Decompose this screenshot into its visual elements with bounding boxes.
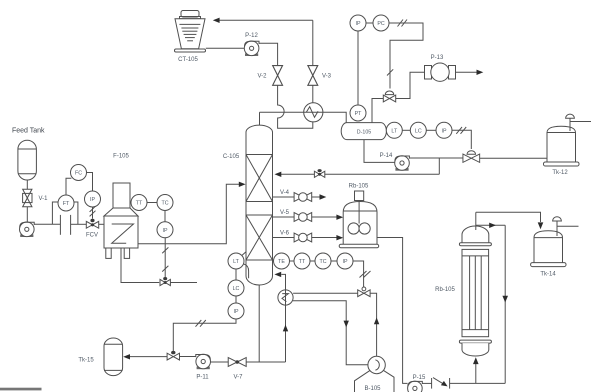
svg-text:IP: IP (90, 197, 95, 203)
svg-text:FT: FT (63, 201, 70, 207)
reflux branch down (438, 158, 440, 174)
svg-text:IP: IP (342, 259, 347, 265)
pump P-11 (196, 354, 211, 380)
signal PT to IP (357, 31, 359, 105)
signal LT to LC (235, 269, 237, 280)
pump P-14 (380, 153, 410, 170)
Tk-12 vent (566, 114, 591, 131)
svg-text:TT: TT (136, 201, 143, 207)
svg-text:Feed Tank: Feed Tank (12, 128, 45, 135)
wire P-14 to level valve (409, 157, 463, 159)
svg-text:V-5: V-5 (280, 210, 290, 216)
column C-105 shell (246, 112, 273, 285)
arrow feed into column (239, 182, 246, 187)
svg-text:P-13: P-13 (431, 55, 444, 61)
svg-text:LC: LC (415, 128, 422, 134)
pump P-15 (408, 375, 426, 392)
instrument LC (drum level) (410, 122, 426, 138)
tank Tk-14 (531, 231, 566, 278)
reboiler exchanger (278, 290, 293, 305)
svg-text:FCV: FCV (86, 233, 98, 239)
wire V-7 to P-11 (211, 361, 229, 363)
svg-text:CT-105: CT-105 (178, 57, 198, 63)
overhead line column to drum (260, 112, 347, 122)
column packing section 2 (246, 215, 273, 260)
signal FC to IP (87, 173, 93, 192)
svg-text:LT: LT (391, 128, 398, 134)
wire V-3 to condenser top (312, 85, 314, 103)
instrument TC (column bottom) (315, 253, 331, 269)
svg-text:Tk-15: Tk-15 (78, 358, 94, 364)
wire V-6 to reactor (312, 235, 344, 240)
instrument TT (column bottom) (294, 253, 310, 269)
svg-text:PC: PC (377, 21, 385, 27)
FT tap lines (52, 202, 78, 224)
svg-text:V-7: V-7 (233, 375, 243, 381)
tank control valve (167, 351, 179, 360)
condenser coil (306, 107, 318, 118)
reflux inline valve (314, 169, 324, 177)
valve V-3 (308, 66, 332, 86)
svg-text:C-105: C-105 (223, 154, 240, 160)
wire V-5 to reactor (312, 215, 344, 220)
wire feed pump to orifice (34, 223, 60, 225)
svg-text:D-105: D-105 (357, 130, 371, 136)
instrument LT (column) (228, 253, 244, 269)
wire P-12 to V-2 (259, 43, 278, 65)
svg-text:TC: TC (161, 201, 168, 207)
valve V-1 (23, 189, 49, 207)
cooling tower CT-105 (175, 11, 206, 64)
riser into exchanger bottom with arrow (473, 357, 479, 383)
svg-text:V-1: V-1 (39, 196, 49, 202)
control valve FCV (86, 219, 99, 239)
signal LT to LC (402, 129, 410, 131)
instrument IP (drum level) (436, 122, 452, 138)
svg-text:LC: LC (233, 286, 240, 292)
signal TE to TT (290, 260, 295, 262)
wire V-1 to feed pump (26, 207, 28, 222)
svg-text:Tk-12: Tk-12 (552, 170, 568, 176)
signal TC to IP (331, 260, 337, 262)
wire FCV to heater F-105 (99, 223, 104, 225)
instrument TC (heater) (157, 195, 173, 211)
B-105 control valve (358, 287, 370, 297)
svg-text:PT: PT (355, 111, 363, 117)
drum D-105 (341, 123, 386, 140)
signal PC to vent valve with slashes (387, 20, 423, 89)
pump P-13 (425, 55, 456, 81)
svg-text:F-105: F-105 (113, 154, 129, 160)
svg-text:TE: TE (278, 259, 285, 265)
wire valve to B-105 discharge with up arrow (370, 293, 379, 356)
wire orifice to FCV (71, 223, 87, 225)
window edge artifact (0, 388, 42, 391)
fuel line stub after valve (171, 282, 198, 284)
svg-text:IP: IP (355, 21, 360, 27)
instrument TT (heater) (131, 195, 147, 211)
level control valve (463, 151, 480, 163)
exchanger upper loop line to valve (293, 292, 358, 294)
fuel line from heater (121, 248, 159, 283)
orifice plates (60, 215, 70, 235)
bottoms header line (246, 361, 285, 363)
valve V-6 line (273, 237, 295, 239)
svg-text:FC: FC (75, 171, 82, 177)
svg-text:P-12: P-12 (245, 33, 258, 39)
exchanger Rb-105 shell (459, 226, 491, 356)
svg-text:P-14: P-14 (380, 153, 393, 159)
svg-text:V-3: V-3 (322, 74, 332, 80)
wire coupling to reboiler bottom (450, 382, 506, 384)
instrument LC (column) (228, 280, 244, 296)
condenser (304, 103, 323, 122)
overhead rail to Tk-14 (476, 212, 541, 222)
fuel valve (160, 277, 170, 286)
P-13 discharge arrow (456, 70, 484, 75)
instrument IP (FCV loop) (85, 191, 101, 207)
wire drum bottom to P-14 (364, 140, 395, 163)
reboiler riser into column (274, 272, 288, 362)
column packing section 1 (246, 155, 273, 202)
svg-text:IP: IP (441, 128, 446, 134)
instrument PC (373, 15, 389, 31)
pump P-12 (244, 33, 259, 56)
arrow into Tk-14 (538, 222, 544, 229)
signal IP to PC (366, 22, 373, 24)
instrument PT (drum) (350, 105, 366, 121)
tank Tk-12 (544, 126, 580, 176)
vent control valve (383, 91, 395, 102)
signal LC to IP (426, 129, 436, 131)
tank Tk-15 (78, 338, 122, 376)
valve V-4 line (273, 196, 295, 198)
reflux line to column (281, 173, 439, 175)
signal FT to FC (66, 178, 71, 195)
valve V-5 (280, 210, 312, 221)
valve V-4 (280, 190, 312, 201)
feed pump (20, 222, 35, 237)
wire drum to vent valve (372, 99, 383, 123)
instrument LT (drum level) (386, 122, 402, 138)
svg-text:TC: TC (319, 259, 326, 265)
breakaway coupling (432, 378, 450, 389)
signal TT to TC (147, 202, 157, 204)
svg-text:IP: IP (162, 228, 167, 234)
wire P-15 to coupling (422, 382, 431, 384)
instrument FT (58, 195, 74, 211)
signal IP to B-105 valve with slashes (353, 261, 371, 287)
svg-text:V-6: V-6 (280, 231, 290, 237)
valve V-2 (257, 66, 282, 86)
signal IP to level valve with slashes (452, 127, 471, 149)
reactor outlet to P-15 (377, 238, 408, 384)
arrow V-4 product (312, 194, 327, 199)
column bottoms outlet (258, 285, 260, 362)
instrument IP (vent loop) (350, 15, 366, 31)
valve V-6 (280, 231, 312, 242)
wire CT-105 to P-12 (206, 47, 245, 49)
feed tank (18, 140, 37, 180)
svg-text:Rb-105: Rb-105 (349, 184, 369, 190)
svg-text:V-4: V-4 (280, 190, 290, 196)
signal IP to fuel valve with slashes (162, 238, 168, 277)
reboiler exchanger coil (282, 294, 288, 302)
wire P-11 to tank valve (180, 356, 196, 358)
wire V-3 up to return line (312, 20, 314, 65)
wire vent valve to P-13 (396, 72, 425, 98)
wire tank valve to Tk-15 (130, 356, 168, 358)
wire level valve to Tk-12 (480, 157, 547, 159)
instrument IP (reboiler loop) (337, 253, 353, 269)
reactor Rb-105 (339, 191, 379, 248)
heater F-105 (104, 183, 138, 258)
blower B-105 (355, 356, 395, 392)
arrow into Tk-15 (123, 354, 130, 359)
Tk-14 vent (553, 217, 579, 236)
LT taps to column (242, 252, 249, 279)
svg-text:Tk-14: Tk-14 (540, 272, 556, 278)
valve V-5 line (273, 216, 295, 218)
recirculation downcomer with arrow (502, 225, 508, 383)
arrow reflux into column (275, 172, 282, 177)
signal TT to TC (310, 260, 315, 262)
wire tank to V-1 (26, 180, 28, 189)
svg-text:P-15: P-15 (413, 375, 426, 381)
return line to cooling tower (219, 19, 312, 21)
signal LC to IP (235, 296, 237, 303)
signal TC to IP (164, 211, 166, 222)
instrument TE (column bottom) (274, 253, 290, 269)
svg-text:V-2: V-2 (257, 74, 267, 80)
signal IP to FCV with slashes (90, 206, 96, 218)
svg-text:B-105: B-105 (364, 386, 381, 392)
transfer line heater to column (138, 184, 239, 244)
svg-text:LT: LT (233, 259, 240, 265)
arrow into cooling tower (213, 18, 220, 23)
svg-text:TT: TT (299, 259, 306, 265)
instrument FC (71, 165, 87, 181)
instrument IP (column bottoms) (228, 303, 244, 319)
svg-text:IP: IP (233, 309, 238, 315)
svg-text:Rb-105: Rb-105 (435, 287, 455, 293)
signal IP to tank valve with slashes (173, 319, 236, 351)
exchanger top outlet (475, 212, 477, 230)
recirculation branch with arrow (476, 223, 505, 228)
svg-text:P-11: P-11 (196, 375, 209, 381)
instrument IP (heater) (157, 222, 173, 238)
wire V-2 to condenser with hop (278, 85, 313, 128)
exchanger lower loop line with down arrow (293, 301, 368, 365)
valve V-7 (228, 358, 246, 381)
